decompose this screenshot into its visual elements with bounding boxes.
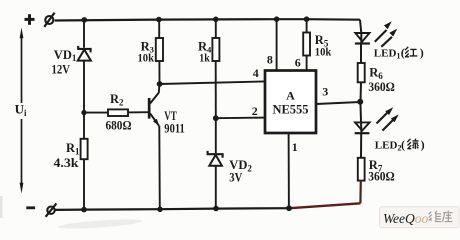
junction node R3/collector/pin4: [157, 81, 163, 87]
svg-text:A: A: [286, 88, 295, 102]
svg-text:3V: 3V: [229, 170, 242, 184]
wire R5 top: [306, 19, 308, 32]
wire pin 2: [216, 117, 266, 120]
wire LED1 to R6: [360, 44, 362, 64]
svg-text:360Ω: 360Ω: [368, 170, 395, 184]
resistor R2: [108, 109, 128, 116]
wire R2 to base: [128, 111, 148, 113]
junction node VD1/R1/R2: [81, 110, 86, 115]
wire bottom rail right segment (dark red): [290, 203, 360, 208]
resistor R7: [358, 158, 365, 181]
junction top rail / VD1: [82, 17, 88, 23]
wire bottom rail: [55, 208, 290, 210]
wire node to R1: [83, 113, 85, 139]
svg-text:3: 3: [322, 85, 328, 99]
svg-text:6: 6: [295, 56, 301, 70]
svg-text:R2: R2: [110, 92, 124, 107]
wire emitter down to rail: [158, 126, 161, 210]
wire R5 bottom pin 6: [306, 56, 308, 71]
svg-text:1: 1: [292, 140, 298, 154]
junction top rail / R4: [213, 17, 219, 23]
label -: [26, 206, 35, 209]
terminal plus input: [44, 13, 54, 27]
wire R7 to bottom rail (dark red): [359, 181, 362, 204]
terminal minus input: [46, 203, 57, 216]
LED2 diode (green): [355, 122, 370, 133]
resistor R6: [358, 63, 365, 82]
junction node R4/VD2/pin2: [213, 115, 219, 121]
watermark WeeQoo weiku: [380, 207, 460, 228]
IC A NE555 timer: [265, 71, 316, 134]
wire pin 8: [276, 19, 278, 70]
svg-text:Ui: Ui: [15, 101, 27, 118]
resistor R4: [212, 38, 219, 61]
wire LED column from rail: [360, 20, 361, 44]
transistor VT 9011 NPN: [148, 93, 159, 126]
svg-text:LED2: LED2: [375, 139, 402, 152]
svg-text:680Ω: 680Ω: [106, 118, 132, 132]
svg-text:2: 2: [252, 104, 258, 118]
svg-text:): ): [421, 138, 425, 152]
wire collector up to node: [158, 84, 161, 93]
junction node pin3 / LEDs: [357, 99, 363, 105]
LED1 emission arrows: [375, 21, 398, 47]
wire R4 top: [215, 19, 217, 38]
svg-text:WeeQoo: WeeQoo: [383, 211, 429, 226]
wire pin 1: [288, 133, 290, 208]
resistor R1: [81, 139, 88, 159]
wire node to LED2: [360, 102, 361, 133]
svg-text:4: 4: [253, 66, 259, 80]
svg-text:): ): [420, 46, 424, 60]
wire VD1 top: [83, 20, 85, 48]
glyph lv (green): [407, 139, 418, 149]
svg-text:LED1: LED1: [374, 47, 401, 60]
svg-text:(: (: [401, 138, 405, 152]
wire R1 bottom: [83, 159, 85, 209]
zener diode VD2: [208, 151, 223, 166]
wire node to pin 4: [160, 81, 266, 84]
junction top rail / pin 8: [274, 16, 280, 22]
junction top rail / R3: [156, 17, 162, 23]
voltage arrow Ui: [20, 28, 24, 194]
label +: [25, 14, 35, 25]
zener diode VD1: [78, 46, 91, 61]
glyph hong (red): [405, 47, 417, 57]
wire VD2 bottom: [215, 166, 217, 209]
junction bottom rail / emitter: [157, 207, 163, 213]
junction bottom rail / pin 1: [286, 205, 292, 211]
wire node to VD2: [215, 118, 217, 153]
svg-text:4.3k: 4.3k: [54, 156, 79, 170]
wire top supply rail: [55, 19, 360, 20]
svg-text:12V: 12V: [52, 63, 71, 77]
svg-text:R6: R6: [369, 66, 383, 81]
wire R6 to node: [360, 82, 363, 102]
svg-text:R1: R1: [66, 141, 80, 156]
wire R3 top: [158, 20, 160, 39]
svg-text:VD1: VD1: [54, 48, 77, 63]
resistor R3: [156, 38, 163, 61]
junction bottom rail / VD2: [213, 206, 219, 212]
wire VD1 bottom to R2 node: [83, 61, 85, 113]
wire R4 bottom to pin2 node: [215, 61, 217, 118]
svg-text:8: 8: [267, 53, 273, 67]
wire R3 bottom: [158, 61, 160, 84]
svg-text:(: (: [401, 46, 405, 60]
svg-text:NE555: NE555: [272, 102, 308, 116]
LED2 emission arrows: [377, 107, 399, 130]
LED1 diode (red): [355, 33, 370, 44]
junction bottom rail / R1: [81, 207, 87, 213]
svg-text:9011: 9011: [164, 122, 185, 136]
svg-text:10k: 10k: [315, 45, 332, 59]
svg-text:360Ω: 360Ω: [368, 80, 395, 94]
wire LED2 to R7: [360, 133, 362, 158]
wire pin 3: [316, 102, 359, 104]
svg-text:1k: 1k: [199, 50, 210, 64]
junction top rail / R5: [304, 16, 310, 22]
resistor R5: [303, 33, 310, 56]
wire R2 left: [84, 112, 108, 114]
svg-text:10k: 10k: [138, 50, 155, 64]
